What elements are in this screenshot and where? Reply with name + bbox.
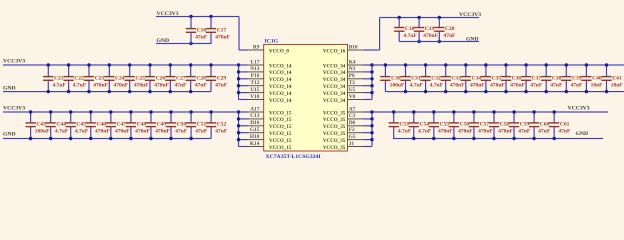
svg-text:G15: G15 bbox=[250, 127, 260, 133]
svg-text:F2: F2 bbox=[349, 127, 355, 133]
pin V18 (left, VCCO_14) bbox=[248, 94, 292, 104]
svg-text:D6: D6 bbox=[349, 120, 356, 126]
capacitor C28 47nF bbox=[186, 65, 208, 92]
svg-text:C24: C24 bbox=[115, 75, 125, 81]
capacitor C59 47nF bbox=[509, 112, 531, 139]
wire VCC3V3 top-right rail bbox=[363, 17, 479, 51]
wire right VCCO_35 bus bbox=[363, 111, 372, 147]
svg-text:C41: C41 bbox=[612, 75, 622, 81]
svg-text:VCC3V3: VCC3V3 bbox=[3, 106, 25, 112]
svg-text:C21: C21 bbox=[54, 75, 64, 81]
pin L17 (left, VCCO_14) bbox=[248, 59, 292, 69]
capacitor C25 470nF bbox=[125, 65, 150, 92]
svg-text:VCC3V3: VCC3V3 bbox=[3, 58, 25, 64]
svg-text:C25: C25 bbox=[135, 75, 145, 81]
capacitor C27 47nF bbox=[165, 65, 187, 92]
svg-text:C48: C48 bbox=[137, 122, 147, 128]
svg-text:C38: C38 bbox=[552, 75, 562, 81]
wire GND rail bbox=[3, 91, 211, 92]
svg-text:VCCO_14: VCCO_14 bbox=[269, 84, 292, 90]
capacitor C33 470nF bbox=[441, 65, 466, 92]
svg-text:G5: G5 bbox=[349, 134, 356, 140]
svg-text:47nF: 47nF bbox=[215, 82, 228, 88]
svg-text:C34: C34 bbox=[472, 75, 482, 81]
svg-text:VCCO_14: VCCO_14 bbox=[269, 70, 292, 76]
capacitor C24 470nF bbox=[104, 65, 129, 92]
svg-text:4.7uF: 4.7uF bbox=[403, 33, 417, 39]
capacitor C47 470nF bbox=[106, 112, 131, 139]
capacitor C57 470nF bbox=[469, 112, 494, 139]
capacitor C40 10nF bbox=[581, 65, 603, 92]
svg-text:C19: C19 bbox=[425, 26, 435, 32]
junction bbox=[189, 15, 212, 45]
power VCC3V3 (top left) bbox=[157, 11, 179, 17]
svg-text:C31: C31 bbox=[411, 75, 421, 81]
svg-text:GND: GND bbox=[3, 86, 16, 92]
svg-text:VCCO_35: VCCO_35 bbox=[323, 117, 346, 123]
svg-text:C27: C27 bbox=[176, 75, 186, 81]
wire VCC3V3 rail bbox=[372, 64, 624, 65]
svg-text:P6: P6 bbox=[349, 73, 355, 79]
capacitor C54 4.7uF bbox=[409, 112, 432, 139]
svg-text:C53: C53 bbox=[399, 122, 409, 128]
capacitor C17 470nF bbox=[206, 17, 231, 44]
svg-text:10nF: 10nF bbox=[611, 82, 624, 88]
svg-text:470nF: 470nF bbox=[478, 129, 493, 135]
capacitor C20 47nF bbox=[434, 18, 456, 42]
svg-text:C29: C29 bbox=[217, 75, 227, 81]
svg-text:C28: C28 bbox=[196, 75, 206, 81]
pin F2 (right, VCCO_35) bbox=[323, 127, 363, 137]
junction bbox=[237, 110, 240, 141]
pin K14 (left, VCCO_15) bbox=[248, 141, 292, 151]
junction bbox=[237, 63, 240, 94]
svg-text:V8: V8 bbox=[349, 94, 356, 100]
capacitor C58 470nF bbox=[489, 112, 514, 139]
svg-text:VCCO_16: VCCO_16 bbox=[323, 48, 346, 54]
wire GND rail bbox=[3, 138, 211, 139]
svg-text:A7: A7 bbox=[349, 106, 356, 112]
svg-text:R9: R9 bbox=[253, 44, 260, 50]
svg-text:C59: C59 bbox=[520, 122, 530, 128]
svg-text:470nF: 470nF bbox=[438, 129, 453, 135]
wire GND rail bbox=[393, 138, 603, 139]
svg-text:VCC3V3: VCC3V3 bbox=[568, 105, 590, 111]
capacitor C49 470nF bbox=[146, 112, 171, 139]
svg-text:C16: C16 bbox=[197, 27, 207, 33]
svg-text:470nF: 470nF bbox=[458, 129, 473, 135]
svg-text:C58: C58 bbox=[500, 122, 510, 128]
svg-text:VCCO_35: VCCO_35 bbox=[323, 145, 346, 151]
capacitor C38 47nF bbox=[541, 65, 563, 92]
svg-text:C33: C33 bbox=[451, 75, 461, 81]
wire GND top-left rail bbox=[156, 43, 212, 44]
svg-text:J1: J1 bbox=[349, 141, 355, 147]
svg-text:VCCO_14: VCCO_14 bbox=[269, 98, 292, 104]
svg-text:470nF: 470nF bbox=[215, 34, 230, 40]
junction bbox=[47, 63, 213, 93]
capacitor C53 4.7uF bbox=[389, 112, 412, 139]
power VCC3V3 (bottom left) bbox=[3, 106, 25, 112]
capacitor C61 47nF bbox=[549, 112, 571, 139]
svg-text:47nF: 47nF bbox=[538, 129, 551, 135]
svg-text:C50: C50 bbox=[177, 122, 187, 128]
svg-text:P16: P16 bbox=[251, 73, 260, 79]
svg-text:C51: C51 bbox=[197, 122, 207, 128]
capacitor C35 470nF bbox=[481, 65, 506, 92]
pin A7 (right, VCCO_35) bbox=[323, 106, 363, 116]
svg-text:47nF: 47nF bbox=[558, 129, 571, 135]
junction bbox=[398, 16, 441, 43]
capacitor C43 100uF bbox=[26, 112, 51, 139]
svg-text:L17: L17 bbox=[250, 59, 259, 65]
value XC7A35T-L1CSG324I bbox=[266, 154, 322, 160]
svg-text:VCCO_15: VCCO_15 bbox=[269, 145, 292, 151]
svg-text:C26: C26 bbox=[156, 75, 166, 81]
wire VCC3V3 rail bbox=[3, 111, 239, 112]
svg-text:470nF: 470nF bbox=[115, 129, 130, 135]
svg-text:VCCO_34: VCCO_34 bbox=[323, 77, 346, 83]
svg-text:VCCO_14: VCCO_14 bbox=[269, 63, 292, 69]
junction bbox=[29, 110, 213, 140]
svg-text:N3: N3 bbox=[349, 66, 356, 72]
svg-text:470nF: 470nF bbox=[155, 129, 170, 135]
capacitor C56 470nF bbox=[449, 112, 474, 139]
svg-text:H18: H18 bbox=[250, 134, 260, 140]
svg-text:VCCO_35: VCCO_35 bbox=[323, 131, 346, 137]
svg-text:C52: C52 bbox=[217, 122, 227, 128]
power VCC3V3 (mid left) bbox=[3, 58, 25, 64]
capacitor C37 47nF bbox=[521, 65, 543, 92]
pin A17 (left, VCCO_15) bbox=[248, 106, 292, 116]
svg-text:4.7uF: 4.7uF bbox=[55, 129, 69, 135]
capacitor C51 47nF bbox=[186, 112, 208, 139]
svg-text:C46: C46 bbox=[97, 122, 107, 128]
svg-text:C49: C49 bbox=[157, 122, 167, 128]
pin P6 (right, VCCO_34) bbox=[323, 73, 363, 83]
pin G15 (left, VCCO_15) bbox=[248, 127, 292, 137]
pin H18 (left, VCCO_15) bbox=[248, 134, 292, 144]
svg-text:C60: C60 bbox=[540, 122, 550, 128]
capacitor C45 4.7uF bbox=[66, 112, 89, 139]
svg-text:VCCO_15: VCCO_15 bbox=[269, 131, 292, 137]
svg-text:C44: C44 bbox=[56, 122, 66, 128]
svg-text:U15: U15 bbox=[250, 87, 260, 93]
svg-text:K4: K4 bbox=[349, 59, 356, 65]
capacitor C44 4.7uF bbox=[46, 112, 69, 139]
svg-text:C39: C39 bbox=[572, 75, 582, 81]
svg-text:C30: C30 bbox=[391, 75, 401, 81]
capacitor C39 47nF bbox=[561, 65, 583, 92]
svg-text:47nF: 47nF bbox=[518, 129, 531, 135]
svg-text:470nF: 470nF bbox=[510, 82, 525, 88]
svg-text:T2: T2 bbox=[349, 80, 356, 86]
svg-text:470nF: 470nF bbox=[470, 82, 485, 88]
ground GND (mid left) bbox=[3, 86, 16, 92]
pin K4 (right, VCCO_34) bbox=[323, 59, 363, 69]
svg-text:VCCO_14: VCCO_14 bbox=[269, 77, 292, 83]
svg-text:4.7uF: 4.7uF bbox=[410, 82, 424, 88]
svg-text:A17: A17 bbox=[250, 106, 260, 112]
svg-text:470nF: 470nF bbox=[490, 82, 505, 88]
svg-text:VCCO_14: VCCO_14 bbox=[269, 91, 292, 97]
svg-text:4.7uF: 4.7uF bbox=[73, 82, 87, 88]
svg-text:VCCO_34: VCCO_34 bbox=[323, 91, 346, 97]
pin B10 (right, VCCO_16) bbox=[323, 44, 363, 54]
svg-text:47nF: 47nF bbox=[571, 82, 584, 88]
capacitor C16 47uF bbox=[186, 17, 208, 44]
capacitor C21 4.7uF bbox=[43, 65, 66, 92]
svg-text:VCCO_35: VCCO_35 bbox=[323, 110, 346, 116]
svg-text:C23: C23 bbox=[95, 75, 105, 81]
capacitor C50 47nF bbox=[166, 112, 188, 139]
svg-text:K14: K14 bbox=[250, 141, 260, 147]
capacitor C19 470nF bbox=[414, 18, 439, 42]
svg-text:C22: C22 bbox=[74, 75, 84, 81]
svg-text:47nF: 47nF bbox=[530, 82, 543, 88]
pin U5 (right, VCCO_34) bbox=[323, 87, 363, 97]
junction bbox=[370, 63, 373, 94]
pin D6 (right, VCCO_35) bbox=[323, 120, 363, 130]
svg-text:100uF: 100uF bbox=[35, 129, 50, 135]
svg-text:C35: C35 bbox=[492, 75, 502, 81]
svg-text:VCCO_34: VCCO_34 bbox=[323, 84, 346, 90]
junction bbox=[392, 110, 556, 140]
pin N3 (right, VCCO_34) bbox=[323, 66, 363, 76]
svg-text:4.7uF: 4.7uF bbox=[398, 129, 412, 135]
svg-text:C47: C47 bbox=[117, 122, 127, 128]
pin C3 (right, VCCO_35) bbox=[323, 113, 363, 123]
svg-text:47nF: 47nF bbox=[215, 129, 228, 135]
wire VCC3V3 top-left rail bbox=[156, 16, 248, 51]
ground GND (top right) bbox=[466, 37, 479, 43]
svg-text:C13: C13 bbox=[250, 113, 260, 119]
pin J1 (right, VCCO_35) bbox=[323, 141, 363, 151]
svg-text:V18: V18 bbox=[250, 94, 260, 100]
svg-text:470nF: 470nF bbox=[154, 82, 169, 88]
pin T2 (right, VCCO_34) bbox=[323, 80, 363, 90]
svg-text:470nF: 470nF bbox=[114, 82, 129, 88]
wire left VCCO_15 bus bbox=[238, 111, 248, 147]
wire VCC3V3 rail bbox=[3, 64, 239, 65]
svg-text:VCCO_15: VCCO_15 bbox=[269, 117, 292, 123]
svg-text:470nF: 470nF bbox=[135, 129, 150, 135]
svg-text:VCCO_15: VCCO_15 bbox=[269, 110, 292, 116]
svg-text:470nF: 470nF bbox=[95, 129, 110, 135]
svg-text:C18: C18 bbox=[405, 26, 415, 32]
pin V8 (right, VCCO_34) bbox=[323, 94, 363, 104]
pin T12 (left, VCCO_14) bbox=[248, 80, 292, 90]
capacitor C31 4.7uF bbox=[400, 65, 423, 92]
svg-text:T12: T12 bbox=[250, 80, 259, 86]
svg-text:47nF: 47nF bbox=[550, 82, 563, 88]
svg-text:VCCO_34: VCCO_34 bbox=[323, 98, 346, 104]
svg-text:47nF: 47nF bbox=[444, 33, 457, 39]
pin D16 (left, VCCO_15) bbox=[248, 120, 292, 130]
junction bbox=[384, 63, 609, 93]
ground GND (bottom right) bbox=[576, 131, 589, 137]
capacitor C26 470nF bbox=[145, 65, 170, 92]
capacitor C30 100uF bbox=[380, 65, 405, 92]
svg-text:4.7uF: 4.7uF bbox=[75, 129, 89, 135]
capacitor C18 4.7uF bbox=[394, 18, 417, 42]
svg-text:470nF: 470nF bbox=[134, 82, 149, 88]
svg-text:VCCO_15: VCCO_15 bbox=[269, 124, 292, 130]
svg-text:470nF: 470nF bbox=[450, 82, 465, 88]
svg-text:C17: C17 bbox=[217, 27, 227, 33]
designator IC1G bbox=[265, 39, 279, 45]
pin P16 (left, VCCO_14) bbox=[248, 73, 292, 83]
svg-text:VCCO_34: VCCO_34 bbox=[323, 70, 346, 76]
svg-text:10nF: 10nF bbox=[591, 82, 604, 88]
wire GND rail bbox=[385, 91, 624, 92]
capacitor C29 47nF bbox=[206, 65, 228, 92]
svg-text:C54: C54 bbox=[420, 122, 430, 128]
capacitor C36 470nF bbox=[501, 65, 526, 92]
svg-text:VCCO_35: VCCO_35 bbox=[323, 124, 346, 130]
wire VCC3V3 rail bbox=[372, 111, 608, 112]
svg-text:47nF: 47nF bbox=[175, 129, 188, 135]
svg-text:C32: C32 bbox=[431, 75, 441, 81]
capacitor C48 470nF bbox=[126, 112, 151, 139]
op IC outline U: FPGA part IC1G bbox=[264, 44, 348, 151]
svg-text:470nF: 470nF bbox=[498, 129, 513, 135]
wire left VCCO_14 bus bbox=[238, 64, 248, 100]
svg-text:N13: N13 bbox=[250, 66, 260, 72]
wire GND top-right rail bbox=[399, 41, 479, 42]
junction bbox=[370, 110, 373, 141]
svg-text:47nF: 47nF bbox=[175, 82, 188, 88]
svg-text:VCCO_15: VCCO_15 bbox=[269, 138, 292, 144]
svg-text:C61: C61 bbox=[560, 122, 570, 128]
svg-text:U5: U5 bbox=[349, 87, 356, 93]
pin U15 (left, VCCO_14) bbox=[248, 87, 292, 97]
svg-text:47nF: 47nF bbox=[195, 82, 208, 88]
svg-text:470nF: 470nF bbox=[423, 33, 438, 39]
svg-text:4.7uF: 4.7uF bbox=[418, 129, 432, 135]
svg-text:C40: C40 bbox=[592, 75, 602, 81]
svg-text:VCC3V3: VCC3V3 bbox=[459, 12, 481, 18]
power VCC3V3 (bottom right) bbox=[568, 105, 590, 111]
svg-text:GND: GND bbox=[576, 131, 589, 137]
svg-text:IC1G: IC1G bbox=[265, 39, 279, 45]
svg-text:4.7uF: 4.7uF bbox=[430, 82, 444, 88]
ground GND (top left) bbox=[157, 38, 170, 44]
capacitor C22 4.7uF bbox=[64, 65, 87, 92]
svg-text:B10: B10 bbox=[349, 44, 358, 50]
capacitor C32 4.7uF bbox=[420, 65, 443, 92]
svg-text:47nF: 47nF bbox=[195, 129, 208, 135]
svg-text:C56: C56 bbox=[460, 122, 470, 128]
capacitor C46 470nF bbox=[86, 112, 111, 139]
svg-text:D16: D16 bbox=[250, 120, 260, 126]
svg-text:C43: C43 bbox=[36, 122, 46, 128]
svg-text:GND: GND bbox=[3, 131, 16, 137]
pin N13 (left, VCCO_14) bbox=[248, 66, 292, 76]
power VCC3V3 (top right) bbox=[459, 12, 481, 18]
capacitor C55 470nF bbox=[429, 112, 454, 139]
capacitor C34 470nF bbox=[461, 65, 486, 92]
svg-text:C45: C45 bbox=[76, 122, 86, 128]
svg-text:VCCO_34: VCCO_34 bbox=[323, 63, 346, 69]
svg-text:C20: C20 bbox=[445, 26, 455, 32]
capacitor C23 470nF bbox=[84, 65, 109, 92]
wire right VCCO_34 bus bbox=[363, 64, 372, 100]
svg-text:XC7A35T-L1CSG324I: XC7A35T-L1CSG324I bbox=[266, 154, 322, 160]
svg-text:4.7uF: 4.7uF bbox=[53, 82, 67, 88]
svg-text:C55: C55 bbox=[440, 122, 450, 128]
capacitor C41 10nF bbox=[601, 65, 623, 92]
svg-text:C3: C3 bbox=[349, 113, 356, 119]
pin G5 (right, VCCO_35) bbox=[323, 134, 363, 144]
svg-text:100uF: 100uF bbox=[390, 82, 405, 88]
capacitor C60 47nF bbox=[529, 112, 551, 139]
svg-text:GND: GND bbox=[466, 37, 479, 43]
svg-text:C37: C37 bbox=[532, 75, 542, 81]
pin C13 (left, VCCO_15) bbox=[248, 113, 292, 123]
svg-text:VCCO_0: VCCO_0 bbox=[269, 48, 289, 54]
ground GND (bottom left) bbox=[3, 131, 16, 137]
svg-text:47uF: 47uF bbox=[195, 34, 208, 40]
svg-text:470nF: 470nF bbox=[93, 82, 108, 88]
svg-text:VCCO_35: VCCO_35 bbox=[323, 138, 346, 144]
svg-text:C36: C36 bbox=[512, 75, 522, 81]
svg-text:C57: C57 bbox=[480, 122, 490, 128]
pin R9 (left, VCCO_0) bbox=[248, 44, 290, 54]
capacitor C52 47nF bbox=[206, 112, 228, 139]
